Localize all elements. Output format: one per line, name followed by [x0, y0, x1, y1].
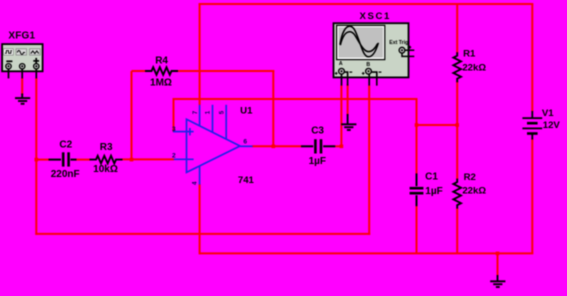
svg-text:R3: R3	[100, 142, 113, 153]
svg-text:A: A	[339, 61, 343, 67]
svg-text:22kΩ: 22kΩ	[462, 186, 486, 197]
svg-text:XFG1: XFG1	[8, 30, 35, 41]
svg-text:12V: 12V	[543, 120, 561, 131]
svg-text:741: 741	[238, 175, 255, 186]
svg-text:C1: C1	[425, 172, 438, 183]
svg-text:R4: R4	[155, 56, 168, 67]
svg-text:Ext Trig: Ext Trig	[389, 40, 408, 46]
svg-text:C3: C3	[311, 126, 324, 137]
svg-text:7: 7	[192, 110, 199, 114]
svg-text:4: 4	[192, 181, 199, 185]
svg-text:6: 6	[243, 138, 247, 145]
svg-text:V1: V1	[542, 108, 554, 119]
svg-text:1MΩ: 1MΩ	[150, 78, 172, 89]
svg-text:3: 3	[172, 126, 176, 133]
svg-text:R2: R2	[464, 172, 476, 183]
svg-text:R1: R1	[463, 48, 476, 59]
svg-text:5: 5	[218, 110, 225, 114]
svg-text:1µF: 1µF	[425, 186, 442, 197]
svg-text:22kΩ: 22kΩ	[462, 62, 486, 73]
svg-text:1: 1	[205, 110, 212, 114]
svg-text:B: B	[366, 62, 370, 68]
svg-text:XSC1: XSC1	[359, 11, 390, 22]
svg-text:220nF: 220nF	[51, 169, 80, 180]
svg-text:U1: U1	[240, 105, 253, 116]
svg-text:C2: C2	[59, 140, 72, 151]
svg-text:10kΩ: 10kΩ	[93, 164, 118, 175]
svg-text:1µF: 1µF	[309, 156, 326, 167]
svg-text:2: 2	[172, 153, 176, 160]
